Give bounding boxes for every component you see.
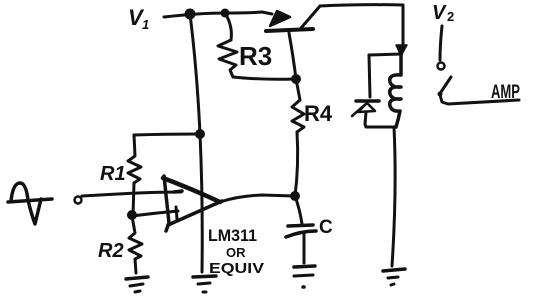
svg-text:R3: R3 — [239, 41, 272, 71]
svg-text:EQUIV: EQUIV — [209, 260, 264, 277]
wire input to op-amp minus input — [82, 192, 181, 196]
wire collector top rail to relay — [320, 5, 403, 45]
wire relay left branch down to diode — [369, 55, 370, 97]
input terminal circle — [75, 197, 82, 204]
svg-text:1: 1 — [142, 17, 149, 32]
wire from supply node left to R1 top — [134, 134, 200, 135]
wire R3 bottom to base node — [233, 77, 295, 79]
wire R4 bottom to output node — [295, 132, 298, 196]
relay coil K1 — [390, 54, 401, 127]
transistor Q1 base bar — [266, 29, 313, 31]
wire R1 bottom to divider node — [133, 183, 134, 215]
svg-text:R4: R4 — [304, 101, 333, 126]
op-amp plus symbol — [176, 207, 177, 219]
op-amp minus symbol — [174, 191, 182, 192]
wire node down to capacitor top — [295, 196, 302, 224]
resistor R2 — [129, 216, 142, 259]
ground (R2) — [126, 277, 148, 292]
svg-text:R2: R2 — [98, 240, 124, 262]
svg-text:OR: OR — [226, 245, 246, 260]
label V2 — [432, 2, 454, 24]
ground (op-amp) — [193, 276, 216, 292]
svg-text:2: 2 — [447, 9, 454, 24]
wire V1 rail down to op-amp supply and ground — [190, 14, 202, 272]
wire relay bottom to ground — [392, 127, 395, 266]
switch lower contact — [438, 92, 443, 97]
resistor R3 — [218, 40, 237, 77]
svg-text:LM311: LM311 — [208, 226, 257, 245]
wire V2 down to switch contact — [440, 26, 442, 60]
label R1 — [100, 163, 126, 185]
sine wave input symbol — [8, 183, 52, 224]
label LM311 — [208, 226, 264, 277]
svg-text:R1: R1 — [100, 163, 126, 185]
transistor Q1 collector lead — [301, 6, 320, 28]
svg-text:C: C — [319, 217, 333, 238]
ground (relay) — [383, 269, 405, 285]
capacitor C top plate — [288, 225, 313, 226]
wire R2 bottom to ground — [135, 259, 136, 273]
resistor R4 — [292, 79, 304, 132]
wire capacitor bottom to ground — [303, 234, 306, 263]
wire op-amp output to R4/C node — [220, 195, 294, 202]
capacitor C bottom plate — [286, 231, 316, 237]
node base/R4 junction — [291, 74, 301, 84]
svg-text:V: V — [432, 2, 447, 24]
svg-text:AMP: AMP — [491, 82, 520, 103]
node R4/C/output junction — [290, 191, 300, 201]
node divider junction — [127, 210, 137, 220]
ground (capacitor) — [294, 266, 315, 287]
switch blade — [441, 77, 451, 92]
resistor R1 — [128, 135, 141, 183]
transistor Q1 (PNP) emitter arrow — [270, 11, 290, 26]
label V1 — [128, 5, 149, 32]
transistor Q1 base lead down — [289, 33, 296, 79]
label R2 — [98, 240, 124, 262]
wire switch to AMP — [440, 95, 519, 104]
wire top rail from V1 to transistor emitter — [164, 12, 272, 17]
arrowhead into relay node — [396, 45, 407, 56]
wire divider node to op-amp plus input — [132, 211, 178, 216]
wire top rail branch down to R3 — [225, 13, 231, 40]
label C — [319, 217, 333, 238]
wire diode bottom to relay bottom bar — [365, 112, 396, 127]
label AMP — [491, 82, 520, 103]
node junction supply/R1 — [195, 129, 205, 139]
node top-rail junction B — [221, 9, 230, 18]
diode D1 anode triangle — [352, 103, 375, 116]
wire relay top bar — [369, 54, 401, 55]
label R4 — [304, 101, 333, 126]
node top-rail junction A — [185, 9, 196, 20]
label R3 — [239, 41, 272, 71]
switch fixed contact circle — [438, 63, 445, 70]
diode D1 cathode bar — [356, 99, 379, 103]
op-amp U1 (LM311) — [163, 176, 222, 231]
